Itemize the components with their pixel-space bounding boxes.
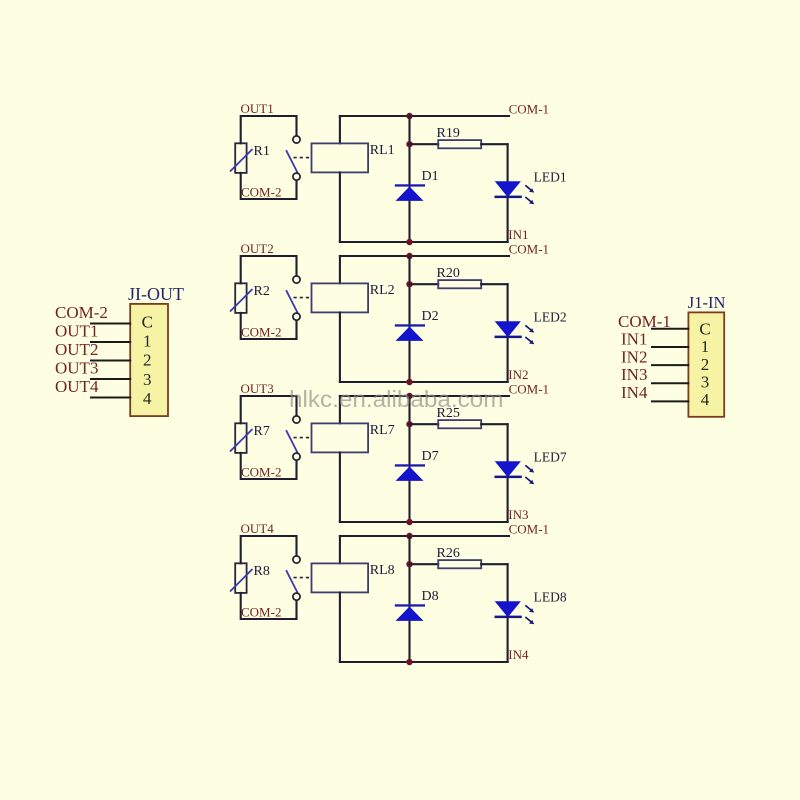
varistor R7	[230, 423, 253, 453]
wire	[241, 313, 297, 339]
wire	[339, 116, 341, 143]
relay coil RL1	[312, 143, 369, 172]
wire	[339, 592, 341, 662]
relay coil RL8	[312, 563, 369, 592]
wire	[481, 563, 507, 565]
actuation link (dashed)	[294, 297, 312, 299]
relay contact (bottom)	[293, 593, 300, 600]
svg-text:C: C	[699, 319, 710, 338]
wire IN rail	[340, 381, 508, 383]
svg-text:IN3: IN3	[621, 365, 647, 384]
svg-text:COM-1: COM-1	[618, 312, 671, 331]
switch blade	[286, 570, 298, 593]
svg-text:1: 1	[143, 332, 152, 351]
svg-text:R20: R20	[437, 266, 460, 281]
svg-text:RL2: RL2	[370, 283, 395, 298]
wire pin	[652, 364, 688, 366]
relay contact (bottom)	[293, 173, 300, 180]
relay contact (top)	[293, 136, 300, 143]
wire IN rail	[340, 241, 508, 243]
wire	[241, 173, 297, 199]
relay coil RL7	[312, 423, 369, 452]
svg-text:3: 3	[701, 373, 710, 392]
svg-text:IN4: IN4	[508, 647, 529, 662]
wire	[339, 396, 341, 423]
svg-text:LED7: LED7	[534, 449, 567, 464]
resistor R26	[438, 560, 481, 568]
svg-text:OUT3: OUT3	[241, 381, 274, 396]
switch blade	[286, 150, 298, 173]
svg-text:COM-2: COM-2	[241, 465, 281, 480]
wire	[339, 312, 341, 382]
wire pin	[91, 341, 130, 343]
svg-text:RL1: RL1	[370, 143, 395, 158]
relay contact (top)	[293, 416, 300, 423]
wire	[339, 536, 341, 563]
varistor R1	[230, 143, 253, 173]
svg-text:OUT1: OUT1	[241, 101, 274, 116]
wire pin	[652, 346, 688, 348]
wire	[410, 423, 439, 425]
wire pin	[91, 397, 130, 399]
diode D7	[395, 464, 425, 481]
svg-text:LED2: LED2	[534, 309, 567, 324]
wire	[241, 256, 297, 283]
connector J1-IN body	[688, 312, 724, 416]
svg-text:COM-2: COM-2	[241, 605, 281, 620]
wire	[408, 536, 410, 662]
wire IN rail	[340, 661, 508, 663]
actuation link (dashed)	[294, 157, 312, 159]
LED LED2	[495, 321, 535, 344]
svg-text:COM-2: COM-2	[241, 185, 281, 200]
wire	[241, 453, 297, 479]
relay contact (bottom)	[293, 453, 300, 460]
wire	[481, 143, 507, 145]
svg-text:OUT4: OUT4	[241, 521, 275, 536]
junction	[406, 561, 412, 567]
svg-text:R2: R2	[254, 284, 270, 299]
resistor R19	[438, 140, 481, 148]
svg-text:COM-1: COM-1	[509, 101, 549, 116]
svg-text:D2: D2	[422, 309, 439, 324]
svg-text:IN1: IN1	[621, 330, 647, 349]
wire COM-1 rail	[340, 535, 509, 537]
wire	[507, 424, 509, 522]
wire IN rail	[340, 521, 508, 523]
svg-text:JI-OUT: JI-OUT	[128, 284, 184, 304]
junction	[406, 659, 412, 665]
junction	[406, 519, 412, 525]
wire pin	[652, 382, 688, 384]
svg-text:4: 4	[143, 389, 152, 408]
svg-text:D7: D7	[422, 449, 439, 464]
svg-text:IN3: IN3	[508, 507, 528, 522]
wire	[241, 396, 297, 423]
svg-text:IN2: IN2	[508, 367, 528, 382]
wire pin	[91, 323, 130, 325]
svg-text:COM-1: COM-1	[509, 521, 549, 536]
switch blade	[286, 430, 298, 453]
junction	[406, 113, 412, 119]
wire	[408, 396, 410, 522]
wire	[241, 593, 297, 619]
relay coil RL2	[312, 283, 369, 312]
wire	[410, 283, 439, 285]
svg-text:OUT2: OUT2	[241, 241, 274, 256]
junction	[406, 533, 412, 539]
svg-text:RL8: RL8	[370, 563, 395, 578]
svg-text:IN4: IN4	[621, 383, 648, 402]
svg-text:OUT4: OUT4	[55, 377, 99, 396]
svg-text:COM-2: COM-2	[241, 325, 281, 340]
wire	[481, 283, 507, 285]
wire	[410, 143, 439, 145]
switch blade	[286, 290, 298, 313]
LED LED8	[495, 601, 535, 624]
svg-text:COM-2: COM-2	[55, 303, 108, 322]
junction	[406, 421, 412, 427]
svg-text:R1: R1	[254, 144, 270, 159]
svg-text:2: 2	[701, 355, 710, 374]
wire COM-1 rail	[340, 115, 509, 117]
wire	[339, 452, 341, 522]
wire	[241, 116, 297, 143]
wire pin	[652, 400, 688, 402]
diode D2	[395, 324, 425, 341]
diode D8	[395, 604, 425, 621]
junction	[406, 393, 412, 399]
wire	[507, 284, 509, 382]
svg-text:OUT2: OUT2	[55, 340, 98, 359]
relay contact (top)	[293, 556, 300, 563]
svg-text:OUT1: OUT1	[55, 321, 98, 340]
svg-text:IN2: IN2	[621, 347, 647, 366]
relay contact (bottom)	[293, 313, 300, 320]
wire	[339, 172, 341, 242]
junction	[406, 253, 412, 259]
wire pin	[652, 328, 688, 330]
wire pin	[91, 378, 130, 380]
resistor R25	[438, 420, 481, 428]
svg-text:IN1: IN1	[508, 227, 528, 242]
wire COM-1 rail	[340, 395, 509, 397]
wire pin	[91, 360, 130, 362]
wire	[241, 536, 297, 563]
LED LED1	[495, 181, 535, 204]
svg-text:OUT3: OUT3	[55, 358, 98, 377]
svg-text:LED8: LED8	[534, 589, 567, 604]
junction	[406, 281, 412, 287]
connector JI-OUT body	[130, 304, 168, 416]
svg-text:R19: R19	[437, 126, 460, 141]
junction	[406, 239, 412, 245]
svg-text:LED1: LED1	[534, 169, 567, 184]
actuation link (dashed)	[294, 577, 312, 579]
svg-text:D1: D1	[422, 169, 439, 184]
svg-text:D8: D8	[422, 589, 439, 604]
svg-text:COM-1: COM-1	[509, 241, 549, 256]
actuation link (dashed)	[294, 437, 312, 439]
svg-text:C: C	[142, 312, 153, 331]
junction	[406, 379, 412, 385]
svg-text:1: 1	[701, 337, 710, 356]
wire	[481, 423, 507, 425]
svg-text:R26: R26	[437, 546, 460, 561]
svg-text:4: 4	[701, 390, 710, 409]
svg-text:R7: R7	[254, 424, 270, 439]
wire	[339, 256, 341, 283]
svg-text:COM-1: COM-1	[509, 381, 549, 396]
wire	[507, 144, 509, 242]
varistor R8	[230, 563, 253, 593]
wire	[507, 564, 509, 662]
diode D1	[395, 184, 425, 201]
svg-text:hlkc.en.alibaba.com: hlkc.en.alibaba.com	[289, 386, 504, 412]
svg-text:R8: R8	[254, 564, 270, 579]
LED LED7	[495, 461, 535, 484]
relay contact (top)	[293, 276, 300, 283]
wire COM-1 rail	[340, 255, 509, 257]
svg-text:2: 2	[143, 351, 152, 370]
wire	[408, 256, 410, 382]
junction	[406, 141, 412, 147]
resistor R20	[438, 280, 481, 288]
varistor R2	[230, 283, 253, 313]
svg-text:J1-IN: J1-IN	[688, 293, 726, 312]
svg-text:RL7: RL7	[370, 423, 395, 438]
wire	[410, 563, 439, 565]
svg-text:3: 3	[143, 370, 152, 389]
wire	[408, 116, 410, 242]
